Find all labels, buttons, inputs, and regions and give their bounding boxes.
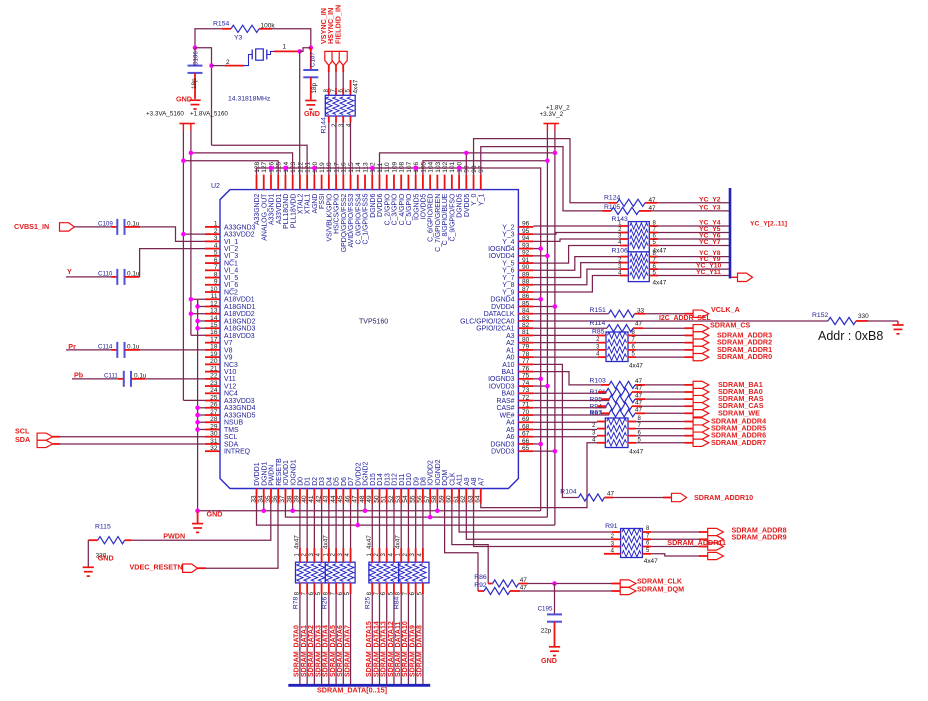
svg-text:A33GND1: A33GND1 — [269, 193, 276, 225]
wire DQM to R92 — [445, 504, 478, 592]
svg-text:96: 96 — [522, 221, 530, 228]
wire Y_2 to R143 row1 — [533, 225, 620, 227]
wire SDRAM_DATA6 to bus — [342, 594, 344, 685]
bus connector YC_Y — [731, 276, 738, 278]
svg-text:55: 55 — [409, 495, 416, 503]
svg-text:75: 75 — [522, 373, 530, 380]
svg-text:47: 47 — [635, 407, 643, 414]
wire SDRAM_DATA11 to bus — [400, 594, 402, 685]
bus SDRAM_DATA[0..15] — [288, 684, 430, 687]
svg-text:DGND1: DGND1 — [261, 462, 268, 486]
svg-text:30: 30 — [210, 431, 218, 438]
svg-text:R152: R152 — [812, 312, 828, 319]
svg-text:4x47: 4x47 — [322, 535, 329, 549]
wire YC_Y9 to bus — [658, 262, 730, 264]
svg-text:D5: D5 — [334, 477, 341, 486]
svg-text:SDRAM_CS: SDRAM_CS — [710, 320, 751, 329]
wire Y_9 to R106 row4 — [533, 276, 620, 293]
svg-text:SDRAM_DATA6: SDRAM_DATA6 — [337, 625, 344, 677]
svg-text:NC1: NC1 — [224, 260, 238, 267]
resistor R151 33 — [609, 310, 635, 317]
wire gnd riser pin 120 — [313, 168, 315, 175]
ground for C195 — [549, 646, 560, 648]
wire SDRAM_CAS from pin — [533, 407, 606, 409]
svg-text:101: 101 — [449, 161, 456, 172]
svg-text:C_5/GPIO: C_5/GPIO — [406, 193, 413, 225]
wire crystal pin1 node jog — [300, 48, 311, 52]
svg-text:GND: GND — [207, 510, 223, 519]
IC U2 bottom pins — [257, 489, 481, 504]
svg-text:0.1u: 0.1u — [127, 270, 140, 277]
wire crystal pin1 down to XTAL2 — [299, 51, 301, 174]
svg-text:330: 330 — [858, 313, 869, 320]
svg-text:IOVDD1: IOVDD1 — [283, 460, 290, 486]
svg-text:A33VDD2: A33VDD2 — [224, 232, 255, 239]
svg-text:VI_4: VI_4 — [224, 268, 238, 275]
wire Y_4 to R143 row3 — [533, 239, 620, 241]
connector SDRAM_BA1 — [693, 381, 709, 388]
svg-text:D9: D9 — [413, 477, 420, 486]
svg-text:A4: A4 — [506, 420, 515, 427]
svg-text:NSUB: NSUB — [224, 420, 244, 427]
wire DGND1 riser — [263, 504, 265, 511]
svg-text:A10: A10 — [502, 362, 514, 369]
wire SDRAM_DATA4 to bus — [328, 594, 330, 685]
wire +3.3VA rail — [182, 131, 184, 401]
svg-text:A33VDD1: A33VDD1 — [276, 193, 283, 224]
svg-text:34: 34 — [258, 495, 265, 503]
junction DGND1 — [261, 509, 266, 514]
svg-text:VI_1: VI_1 — [224, 239, 238, 246]
wire SDRAM_DATA8 to bus — [422, 594, 424, 685]
connector VDEC_RESETN — [183, 564, 198, 572]
svg-text:6: 6 — [214, 257, 218, 264]
svg-text:AGND: AGND — [312, 194, 319, 214]
wire R151 to VCLK_A connector — [645, 313, 685, 315]
svg-text:Y_9: Y_9 — [502, 289, 514, 296]
svg-text:94: 94 — [522, 235, 530, 242]
svg-text:D7: D7 — [348, 477, 355, 486]
svg-text:SDRAM_DATA0: SDRAM_DATA0 — [294, 625, 301, 677]
resistor R114 47 — [607, 325, 633, 332]
wire AGND col to NSUB — [198, 421, 205, 423]
svg-text:SDRAM_DATA14: SDRAM_DATA14 — [373, 621, 380, 677]
svg-text:A18GND1: A18GND1 — [224, 304, 256, 311]
svg-text:77: 77 — [522, 358, 530, 365]
svg-text:FSSI: FSSI — [319, 194, 326, 209]
svg-text:33: 33 — [637, 307, 645, 314]
ground for C107 — [305, 100, 316, 102]
svg-text:49: 49 — [366, 495, 373, 503]
svg-text:61: 61 — [453, 495, 460, 503]
svg-text:A33GND2: A33GND2 — [254, 193, 261, 225]
svg-text:C_8/GPIO/BLUE: C_8/GPIO/BLUE — [442, 193, 449, 245]
wire SDRAM_BA1 from pin — [533, 372, 609, 385]
svg-text:YC_Y[2..11]: YC_Y[2..11] — [750, 221, 787, 228]
svg-text:87: 87 — [522, 286, 530, 293]
svg-text:PLL18VDD: PLL18VDD — [290, 194, 297, 228]
svg-text:4x47: 4x47 — [629, 363, 643, 370]
svg-text:A18VDD2: A18VDD2 — [224, 311, 255, 318]
svg-text:+1.8VA_5160: +1.8VA_5160 — [190, 111, 228, 118]
wire AGND col top join A18GND1 — [197, 300, 199, 307]
svg-text:DGND2: DGND2 — [363, 462, 370, 486]
connector SDRAM_WE — [693, 410, 709, 417]
connector SDRAM_ADDR10 — [672, 493, 687, 501]
svg-text:22p: 22p — [541, 628, 552, 635]
svg-text:BA0: BA0 — [501, 391, 514, 398]
wire SDA to pin31 — [53, 443, 60, 445]
svg-text:R78: R78 — [292, 596, 299, 609]
svg-text:Addr : 0xB8: Addr : 0xB8 — [818, 329, 883, 343]
svg-text:YC_Y3: YC_Y3 — [699, 204, 721, 211]
bus YC_Y[2..11] — [729, 188, 732, 279]
svg-text:98: 98 — [471, 165, 478, 173]
svg-text:42: 42 — [315, 495, 322, 503]
wire R114 to SDRAM_CS — [643, 327, 685, 329]
svg-text:VDEC_RESETN: VDEC_RESETN — [130, 562, 183, 571]
wire IOGND1 riser — [292, 504, 294, 511]
connector SDRAM_ADDR3 — [693, 332, 709, 339]
wire A4 to R87 — [533, 421, 597, 423]
svg-text:4: 4 — [345, 123, 352, 127]
svg-text:SDRAM_DATA11: SDRAM_DATA11 — [395, 622, 402, 677]
svg-text:Y_4: Y_4 — [502, 239, 514, 246]
svg-text:R154: R154 — [213, 21, 229, 28]
svg-text:D6: D6 — [341, 477, 348, 486]
svg-text:DGND4: DGND4 — [490, 297, 514, 304]
svg-text:V12: V12 — [224, 383, 236, 390]
wire +3.3VA to A33VDD2 pin2 — [183, 233, 205, 235]
wire SDRAM_DATA1 to bus — [306, 594, 308, 685]
svg-text:27: 27 — [210, 409, 218, 416]
svg-text:3: 3 — [338, 123, 345, 127]
svg-text:21: 21 — [210, 365, 218, 372]
svg-text:63: 63 — [467, 495, 474, 503]
svg-text:R151: R151 — [590, 307, 606, 314]
svg-text:103: 103 — [435, 161, 442, 172]
svg-text:SDRAM_DATA10: SDRAM_DATA10 — [402, 621, 409, 677]
svg-text:R115: R115 — [95, 524, 111, 531]
svg-text:74: 74 — [522, 380, 530, 387]
svg-text:85: 85 — [522, 300, 530, 307]
svg-text:68: 68 — [522, 423, 530, 430]
svg-text:DVDD4: DVDD4 — [491, 304, 515, 311]
connector SDRAM_ADDR2 — [693, 339, 709, 346]
wire C111 to V11 — [145, 378, 205, 380]
svg-text:IOGND2: IOGND2 — [435, 459, 442, 486]
wire +3.3VA to A33VDD3 pin25 — [183, 399, 205, 401]
svg-text:C110: C110 — [98, 270, 113, 277]
capacitor C114 0.1u — [66, 349, 112, 351]
svg-text:72: 72 — [522, 394, 530, 401]
wire XTAL1 horizontal — [212, 145, 308, 174]
svg-text:4x47: 4x47 — [629, 449, 643, 456]
wire YC_Y4 to bus — [658, 225, 730, 227]
resistor R154 — [222, 28, 231, 30]
svg-text:47: 47 — [635, 378, 643, 385]
svg-text:TMS: TMS — [224, 427, 239, 434]
svg-text:58: 58 — [431, 495, 438, 503]
svg-text:C_2/GPIO: C_2/GPIO — [384, 193, 391, 225]
wire AGND col to A18GND2 — [198, 320, 205, 322]
svg-text:SDRAM_ADDR7: SDRAM_ADDR7 — [711, 438, 766, 447]
svg-text:GND: GND — [304, 109, 320, 118]
wire IOGND2 riser — [436, 504, 438, 511]
wire R91 to SDRAM_ADDR9 — [651, 538, 699, 540]
wire YC_Y2 to bus — [657, 202, 730, 204]
junction crystal pin2 to XTAL1 wire — [209, 63, 214, 68]
svg-text:79: 79 — [522, 344, 530, 351]
IC U2 bottom pin numbers and names — [250, 458, 485, 503]
svg-text:INTREQ: INTREQ — [224, 449, 251, 456]
svg-text:37: 37 — [279, 495, 286, 503]
svg-text:4: 4 — [214, 242, 218, 249]
wire +3.3VA to A33VDD1 — [183, 161, 278, 175]
svg-text:16: 16 — [210, 329, 218, 336]
svg-text:50: 50 — [373, 495, 380, 503]
svg-text:SDRAM_DATA12: SDRAM_DATA12 — [388, 621, 395, 677]
wire DGND2 riser — [364, 504, 366, 511]
svg-text:V9: V9 — [224, 355, 233, 362]
svg-text:108: 108 — [399, 161, 406, 172]
svg-text:23: 23 — [210, 380, 218, 387]
wire SDRAM_DATA15 to bus — [371, 594, 373, 685]
junction DGND2 — [363, 509, 368, 514]
resistor network R78 4x47 — [296, 562, 326, 583]
svg-text:9: 9 — [214, 279, 218, 286]
wire A9 to R91 row2 — [466, 504, 612, 540]
svg-text:C_4/GPIO: C_4/GPIO — [399, 193, 406, 225]
wire SDRAM_DATA9 to bus — [415, 594, 417, 685]
junction crystal pin1 node — [297, 49, 302, 54]
svg-text:A33VDD3: A33VDD3 — [224, 398, 255, 405]
wire R115 to gnd — [87, 540, 89, 566]
svg-text:52: 52 — [388, 495, 395, 503]
wire A1 to R85 — [533, 349, 598, 351]
svg-text:17: 17 — [210, 336, 218, 343]
svg-text:10: 10 — [210, 286, 218, 293]
svg-text:76: 76 — [522, 365, 530, 372]
svg-text:DGND5: DGND5 — [457, 193, 464, 217]
svg-text:60: 60 — [446, 495, 453, 503]
svg-text:RAS#: RAS# — [496, 398, 514, 405]
svg-text:64: 64 — [475, 495, 482, 503]
wire gnd riser pin 124 — [284, 168, 286, 175]
wire VDEC_RESETN to RESETB — [198, 567, 206, 569]
svg-text:BA1: BA1 — [501, 369, 514, 376]
svg-text:25: 25 — [210, 394, 218, 401]
svg-text:127: 127 — [261, 161, 268, 172]
svg-text:XTAL2: XTAL2 — [298, 193, 305, 214]
wire SDRAM_DATA14 to bus — [378, 594, 380, 685]
svg-text:81: 81 — [522, 329, 530, 336]
svg-text:57: 57 — [424, 495, 431, 503]
svg-text:47: 47 — [635, 320, 643, 327]
wire Y_6 to R106 row1 — [533, 257, 620, 271]
svg-text:19: 19 — [210, 351, 218, 358]
svg-text:IOVDD2: IOVDD2 — [428, 460, 435, 486]
svg-text:93: 93 — [522, 242, 530, 249]
wire node to XTAL1 branch — [195, 48, 212, 146]
svg-text:DVDD6: DVDD6 — [377, 193, 384, 217]
IC U2 top pins — [257, 175, 481, 190]
wire AGND col to TMS — [198, 428, 205, 430]
svg-text:TVP5160: TVP5160 — [359, 319, 388, 326]
svg-text:59: 59 — [438, 495, 445, 503]
junction DVDD4 rail — [533, 305, 555, 307]
svg-text:ANALOG_OUT: ANALOG_OUT — [261, 193, 268, 241]
svg-text:107: 107 — [406, 161, 413, 172]
svg-text:14.31818MHz: 14.31818MHz — [228, 95, 271, 102]
svg-text:SDRAM_DATA13: SDRAM_DATA13 — [381, 621, 388, 677]
svg-text:IOGND1: IOGND1 — [290, 459, 297, 486]
wire +3.3V_2 rail — [546, 131, 548, 518]
svg-text:NC2: NC2 — [224, 289, 238, 296]
svg-text:47: 47 — [649, 197, 657, 204]
wire analog ground column — [197, 300, 199, 511]
connector SDRAM_ADDR9 — [708, 536, 724, 543]
svg-text:SDRAM_ADDR10: SDRAM_ADDR10 — [694, 493, 753, 502]
svg-text:A33GND3: A33GND3 — [224, 224, 256, 231]
svg-text:SDRAM_DATA8: SDRAM_DATA8 — [417, 625, 424, 677]
svg-text:DGND6: DGND6 — [370, 193, 377, 217]
svg-text:R91: R91 — [605, 523, 618, 530]
junction gnd pin 126 — [269, 166, 274, 171]
connector SDRAM_ADDR4 — [693, 418, 709, 425]
svg-text:105: 105 — [420, 161, 427, 172]
svg-text:DVDD3: DVDD3 — [491, 449, 515, 456]
svg-text:47: 47 — [520, 577, 528, 584]
wire DGND3 to gnd rail — [533, 443, 540, 445]
wire bottom +3.3V bus IOVDD1 — [285, 504, 547, 518]
svg-text:31: 31 — [210, 438, 218, 445]
svg-text:VI_5: VI_5 — [224, 275, 238, 282]
wire R92 to SDRAM_DQM — [520, 590, 612, 592]
svg-text:R144: R144 — [321, 117, 328, 133]
wire SDRAM_DATA10 to bus — [407, 594, 409, 685]
svg-text:R86: R86 — [474, 574, 487, 581]
svg-text:U2: U2 — [211, 183, 220, 190]
svg-text:IOVDD3: IOVDD3 — [489, 383, 515, 390]
wire Y_7 to R106 row2 — [533, 263, 620, 278]
wire PWDN — [131, 504, 270, 541]
svg-text:SDA: SDA — [15, 435, 30, 444]
resistor network R26 4x47 — [325, 562, 355, 583]
wire R86 to SDRAM_CLK — [528, 583, 612, 585]
connector SDRAM_ADDR7 — [693, 439, 709, 446]
svg-text:CVBS1_IN: CVBS1_IN — [14, 222, 49, 231]
svg-text:A6: A6 — [506, 434, 515, 441]
svg-text:IOVDD4: IOVDD4 — [489, 253, 515, 260]
svg-text:88: 88 — [522, 279, 530, 286]
connector SDRAM_BA0 — [693, 388, 709, 395]
svg-text:15: 15 — [210, 322, 218, 329]
svg-text:47: 47 — [635, 399, 643, 406]
svg-text:HS/CS/GPIO: HS/CS/GPIO — [334, 193, 341, 234]
wire R104 to SDRAM_ADDR10 — [613, 497, 663, 499]
wire R85 to SDRAM_ADDR0 — [636, 356, 685, 358]
svg-text:RESETB: RESETB — [276, 458, 283, 486]
wire IOGND3 to gnd rail — [533, 378, 540, 380]
junction IOGND2 — [435, 509, 440, 514]
svg-text:A33GND4: A33GND4 — [224, 405, 256, 412]
connector SDRAM_ADDR0 — [693, 353, 709, 360]
svg-text:35: 35 — [265, 495, 272, 503]
wire A3 to R85 — [533, 334, 598, 336]
svg-text:Y_1: Y_1 — [478, 193, 485, 205]
wire crystal pin2 to node — [212, 65, 226, 67]
svg-text:123: 123 — [290, 161, 297, 172]
wire SDRAM_DATA3 to bus — [321, 594, 323, 685]
wire DGND4 to gnd rail — [533, 298, 540, 300]
connector SDRAM_CS — [693, 325, 709, 332]
wire SDRAM_DATA7 to bus — [350, 594, 352, 685]
wire SDRAM_DATA13 to bus — [386, 594, 388, 685]
junction R154/C106/XTAL1 node — [193, 45, 198, 50]
svg-text:SDA: SDA — [224, 441, 239, 448]
svg-text:D14: D14 — [377, 473, 384, 486]
svg-text:A2: A2 — [506, 340, 515, 347]
svg-text:R25: R25 — [365, 596, 372, 609]
wire R94 to SDRAM_CAS — [642, 405, 685, 407]
svg-text:D10: D10 — [406, 473, 413, 486]
svg-text:A33GND5: A33GND5 — [224, 412, 256, 419]
wire R91 to SDRAM_ADDR8 — [651, 531, 699, 533]
svg-text:1: 1 — [214, 221, 218, 228]
wire AGND col to A33GND5 — [198, 414, 205, 416]
wire YC_Y11 to bus — [658, 275, 730, 277]
svg-text:R103: R103 — [590, 377, 606, 384]
svg-text:22: 22 — [210, 373, 218, 380]
svg-text:VCLK_A: VCLK_A — [711, 305, 740, 314]
svg-text:104: 104 — [428, 161, 435, 172]
svg-text:5: 5 — [214, 250, 218, 257]
svg-text:C111: C111 — [104, 372, 118, 379]
connector VSYNC_IN — [325, 51, 333, 65]
wire R91 row3 to SDRAM_ADDR11 — [651, 546, 699, 548]
wire +1.8VA rail — [190, 131, 192, 336]
svg-text:39: 39 — [294, 495, 301, 503]
svg-text:DATACLK: DATACLK — [484, 311, 515, 318]
wire A8 to R91 row3 — [474, 504, 612, 547]
wire IOVDD2 riser — [429, 504, 431, 518]
svg-text:IOVDD5: IOVDD5 — [421, 193, 428, 219]
wire A10 to R104 — [533, 364, 578, 497]
wire bottom ground bus — [198, 510, 541, 512]
IC U2 right pin numbers and names — [460, 221, 530, 456]
svg-text:78: 78 — [522, 351, 530, 358]
wire Y_1 to R105 — [481, 147, 603, 211]
svg-text:GPDQ/GPIO/FSS2: GPDQ/GPIO/FSS2 — [341, 193, 348, 252]
wire R85 to SDRAM_ADDR3 — [636, 334, 685, 336]
svg-text:Y_5: Y_5 — [502, 260, 514, 267]
svg-text:VS/VBLK/GPIO: VS/VBLK/GPIO — [326, 193, 333, 242]
svg-text:SDRAM_ADDR9: SDRAM_ADDR9 — [732, 533, 787, 542]
wire A7 to R87 row4 — [481, 443, 597, 508]
svg-text:4x47: 4x47 — [395, 535, 402, 549]
svg-text:8: 8 — [214, 271, 218, 278]
wire R91 row4 stub — [604, 553, 612, 555]
wire R103 to SDRAM_BA1 — [645, 384, 685, 386]
wire SDRAM_DATA12 to bus — [393, 594, 395, 685]
svg-text:A7: A7 — [478, 477, 485, 486]
connector SDRAM_ADDR5 — [693, 425, 709, 432]
wire +1.8V top bus DVDD6 to rail — [379, 153, 554, 175]
wire +1.8V_2 rail — [554, 131, 556, 526]
wire R87 to SDRAM_ADDR5 — [636, 428, 685, 430]
svg-text:SDRAM_DATA15: SDRAM_DATA15 — [366, 621, 373, 677]
